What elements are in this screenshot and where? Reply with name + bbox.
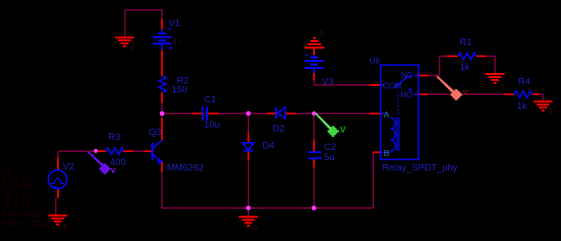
svg-text:MM5262: MM5262 [167,163,204,174]
svg-text:400: 400 [110,157,126,168]
svg-text:V2: V2 [63,161,75,172]
svg-text:0: 0 [131,46,135,53]
svg-text:TR = 1u: TR = 1u [2,191,31,200]
svg-text:0: 0 [320,31,324,38]
svg-text:TD = 50u: TD = 50u [2,182,35,191]
svg-text:V1: V1 [169,18,181,29]
svg-text:V: V [340,125,346,135]
svg-text:Relay_SPDT_phy: Relay_SPDT_phy [382,162,458,173]
svg-text:PW = 400u: PW = 400u [2,210,42,219]
svg-text:D4: D4 [262,140,274,151]
svg-text:C1: C1 [204,95,216,106]
svg-text:V1 = 0: V1 = 0 [2,164,26,173]
svg-text:U6: U6 [369,55,380,65]
svg-text:R3: R3 [108,132,120,143]
svg-text:0: 0 [549,109,553,116]
svg-text:0: 0 [64,224,68,231]
svg-text:B: B [384,148,390,158]
svg-text:TF = 1u: TF = 1u [2,201,30,210]
svg-text:PER = 1000u: PER = 1000u [2,219,50,228]
svg-text:10u: 10u [204,119,220,130]
svg-text:COM: COM [383,81,402,90]
svg-text:D2: D2 [272,124,284,135]
svg-text:R4: R4 [518,77,530,88]
svg-text:5u: 5u [324,152,335,163]
svg-text:1k: 1k [460,62,470,73]
svg-text:A: A [384,110,390,120]
svg-text:V3: V3 [322,77,334,88]
svg-text:1k: 1k [517,101,527,112]
svg-text:Q3: Q3 [149,127,162,138]
svg-text:0: 0 [253,225,257,232]
svg-text:0: 0 [501,84,505,91]
svg-text:V2 = 5: V2 = 5 [2,173,26,182]
svg-text:R1: R1 [460,37,472,48]
svg-text:150: 150 [172,84,188,95]
svg-text:4V: 4V [173,38,183,47]
svg-text:v: v [463,87,468,97]
svg-text:NC: NC [401,71,413,80]
svg-text:NO: NO [400,90,412,99]
svg-text:0V1: 0V1 [237,157,250,164]
